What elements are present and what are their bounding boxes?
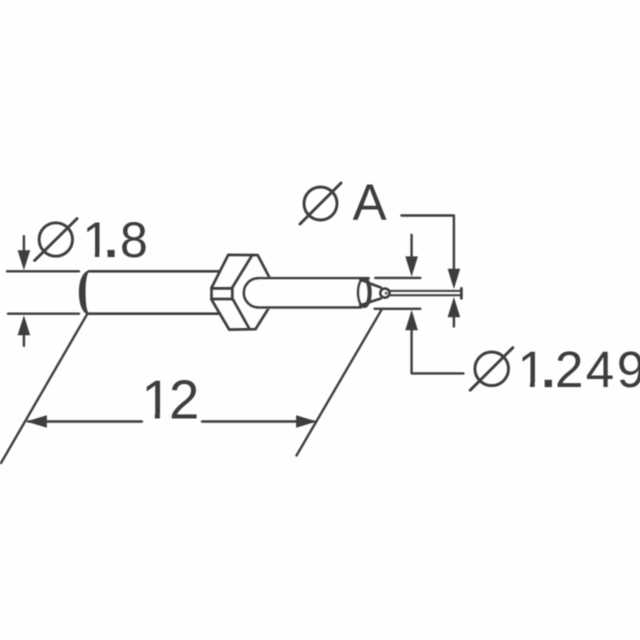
dim 1.8 top extension line (7, 270, 79, 272)
svg-text:1: 1 (83, 212, 111, 268)
diameter symbol for 1.8 (39, 223, 72, 256)
dim A leader elbow (401, 216, 454, 270)
dim A up arrowhead (448, 297, 461, 317)
wire bottom edge (390, 294, 460, 296)
svg-text:1: 1 (142, 369, 172, 430)
tip center dot (385, 292, 388, 295)
dim 1.8 up arrow stem (23, 330, 25, 346)
dim 1.8 down arrow stem (23, 236, 25, 252)
svg-text:2: 2 (555, 341, 583, 398)
cone base ellipse right arc (thicker) (364, 279, 369, 306)
hex flange front vertical edge (231, 287, 234, 299)
label 1.8 period (107, 250, 114, 257)
barrel rounded left cap arc (244, 278, 258, 307)
svg-text:8: 8 (120, 212, 148, 268)
label 1.249 period (545, 380, 552, 387)
dim 12 right diagonal extension (297, 310, 382, 456)
svg-text:2: 2 (169, 369, 199, 430)
cone base ellipse (358, 278, 370, 306)
dim 1.8 down arrowhead (18, 250, 31, 270)
svg-text:1: 1 (518, 341, 546, 398)
hex flange outer outline (212, 255, 270, 330)
dim 1.249 up arrowhead (405, 310, 418, 330)
barrel white fill (244, 277, 362, 309)
dim 12 right arrowhead (296, 415, 317, 428)
dim 1.8 bottom extension line (8, 313, 79, 315)
dim 12 left diagonal extension (1, 314, 88, 464)
dim A down arrowhead (448, 269, 461, 289)
svg-text:A: A (353, 174, 387, 231)
dim 12 line right segment (202, 420, 314, 422)
probe body rounded left end cap (79, 270, 90, 315)
dim 12 line left segment (28, 420, 142, 422)
dim 12 left arrowhead (26, 415, 47, 428)
hex flange lower inner slant (233, 300, 250, 330)
probe body cylinder bottom edge (88, 312, 220, 315)
hex flange upper inner slant (232, 255, 252, 288)
dim 1.249 bottom extension line (375, 308, 421, 310)
diameter symbol for 1.249 (475, 352, 509, 386)
wire top edge (390, 290, 460, 292)
barrel top edge (257, 277, 369, 280)
dim 1.249 down arrowhead (405, 256, 418, 276)
svg-text:9: 9 (617, 341, 640, 398)
dim 1.249 top extension line (375, 277, 420, 279)
dim 1.249 up arrow stem and elbow to label (412, 330, 464, 374)
wire end cap (460, 288, 463, 298)
dim 1.8 up arrowhead (18, 315, 31, 335)
probe body cylinder top edge (89, 270, 220, 273)
barrel bottom edge (257, 306, 361, 309)
dim A lower stem (453, 317, 455, 327)
diameter symbol for A (304, 187, 337, 220)
dim 1.249 down arrow stem (410, 235, 412, 258)
cone top slant edge (360, 280, 381, 288)
tip ring (380, 289, 389, 298)
hex flange band top line (212, 287, 233, 290)
cone bottom slant edge (360, 299, 381, 306)
hex flange band bottom line (212, 298, 233, 301)
svg-text:4: 4 (586, 341, 614, 398)
